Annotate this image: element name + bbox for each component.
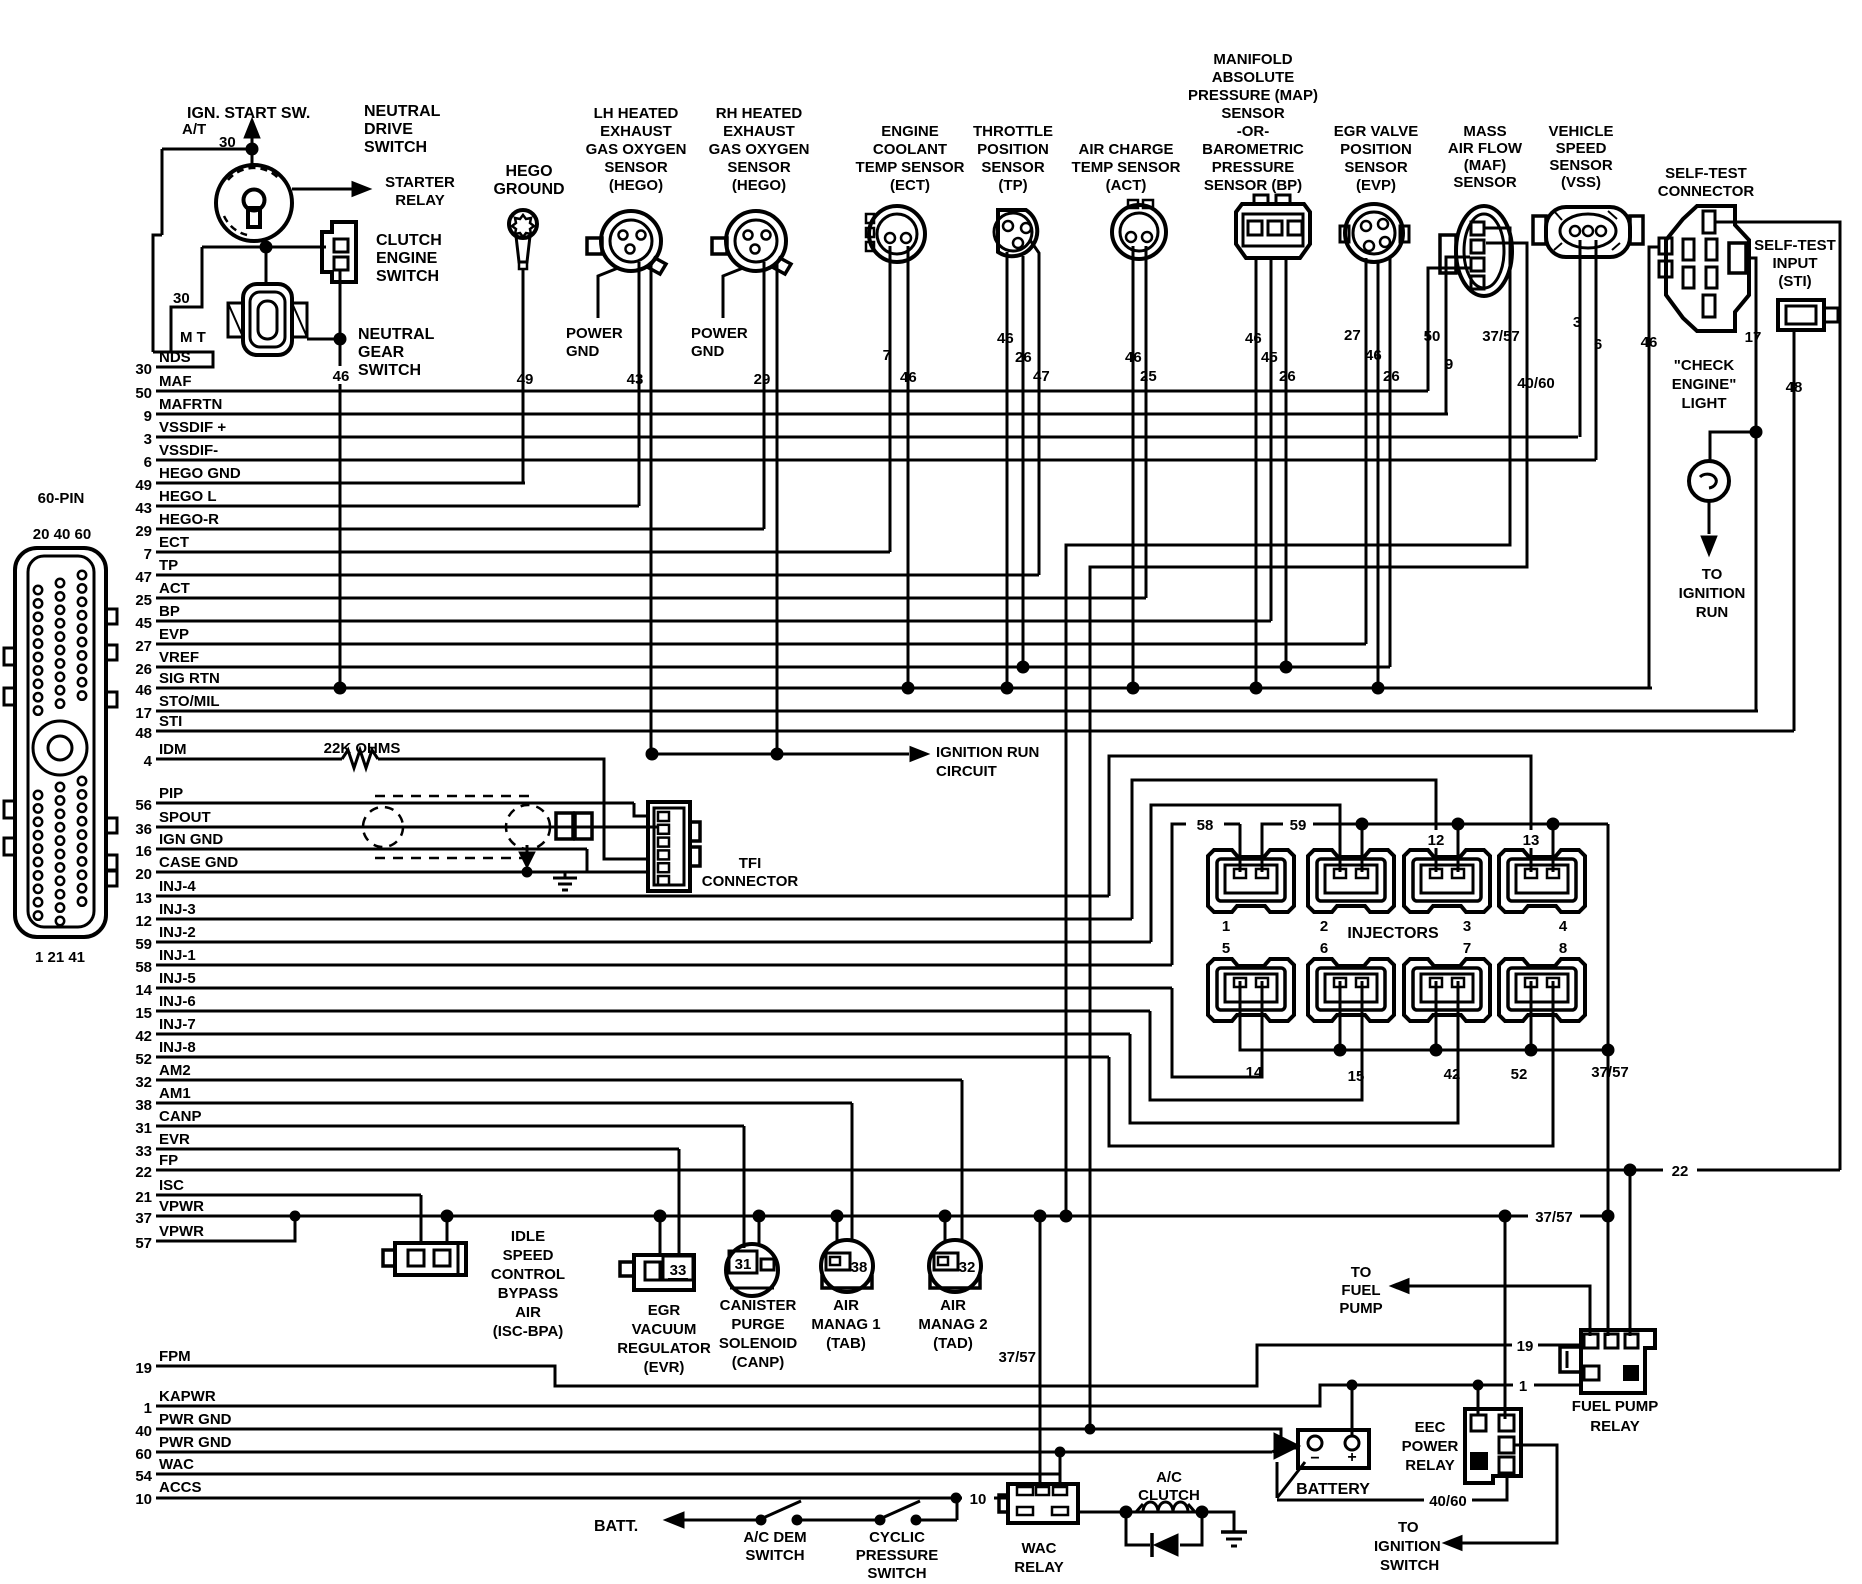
svg-text:58: 58	[135, 959, 152, 976]
wire to fuel pump	[1390, 1279, 1409, 1294]
svg-text:ECT: ECT	[159, 534, 189, 551]
wire TP 46	[1006, 252, 1009, 688]
wire PIP row	[156, 802, 634, 805]
svg-text:22K OHMS: 22K OHMS	[324, 740, 401, 757]
junction bottom bus inj8L	[1525, 1044, 1537, 1056]
svg-text:43: 43	[627, 371, 644, 388]
svg-text:CONNECTOR: CONNECTOR	[702, 873, 799, 890]
junction neutral gear drop	[260, 241, 272, 253]
60-pin connector left tabs	[4, 648, 15, 665]
svg-text:CLUTCH: CLUTCH	[376, 232, 442, 249]
wire 37/57 to EEC relay	[1504, 1216, 1507, 1419]
wire gear switch to node 46	[307, 338, 340, 341]
wire EVR signal 33	[678, 1149, 681, 1255]
wire 22 FP junction	[1624, 1164, 1636, 1176]
svg-text:59: 59	[1290, 817, 1307, 834]
svg-text:VACUUM: VACUUM	[632, 1321, 697, 1338]
wire KAPWR to EEC relay	[1477, 1385, 1480, 1415]
svg-text:45: 45	[1261, 349, 1278, 366]
VSS sensor connector	[1546, 207, 1630, 257]
wire CANP row	[156, 1125, 744, 1128]
svg-text:MANAG 2: MANAG 2	[918, 1316, 987, 1333]
svg-text:INJ-8: INJ-8	[159, 1039, 196, 1056]
EEC power relay body	[1465, 1409, 1521, 1483]
wire BP 45	[1270, 258, 1273, 621]
wire MAF 50	[1428, 268, 1470, 391]
TAB connector	[821, 1240, 873, 1292]
svg-text:CASE GND: CASE GND	[159, 854, 238, 871]
svg-text:4: 4	[1559, 918, 1568, 935]
svg-text:A/T: A/T	[182, 121, 206, 138]
svg-text:IGNITION RUN: IGNITION RUN	[936, 744, 1039, 761]
60-pin ECU connector outline	[15, 548, 106, 937]
svg-text:SENSOR: SENSOR	[1453, 174, 1517, 191]
wire VPWR 57	[156, 1216, 295, 1241]
svg-text:PIP: PIP	[159, 785, 183, 802]
TFI connector body	[648, 802, 690, 891]
diode loop	[1126, 1512, 1150, 1545]
svg-text:SWITCH: SWITCH	[1380, 1557, 1439, 1574]
wire ACT 25	[1145, 246, 1148, 598]
wire ignition run circuit	[651, 753, 909, 756]
shielded cable dashed bottom	[375, 857, 536, 860]
wire HEGO L row	[156, 505, 639, 508]
wire FP row (22)	[156, 1169, 1663, 1172]
svg-text:REGULATOR: REGULATOR	[617, 1340, 711, 1357]
svg-text:33: 33	[135, 1143, 152, 1160]
svg-text:M T: M T	[180, 329, 206, 346]
ISC-BPA connector	[395, 1243, 466, 1275]
svg-text:BAROMETRIC: BAROMETRIC	[1202, 141, 1304, 158]
HEGO ground ring terminal	[509, 210, 537, 238]
wire FPM (19)	[156, 1345, 1512, 1386]
svg-text:13: 13	[135, 890, 152, 907]
svg-text:30: 30	[135, 361, 152, 378]
svg-text:SELF-TEST: SELF-TEST	[1754, 237, 1836, 254]
svg-text:ENGINE: ENGINE	[881, 123, 939, 140]
svg-text:46: 46	[997, 330, 1014, 347]
svg-text:MASS: MASS	[1463, 123, 1506, 140]
ground symbol AC clutch	[1221, 1530, 1247, 1534]
ignition switch body	[216, 165, 292, 241]
junction bus join	[1602, 1044, 1614, 1056]
svg-text:A/C DEM: A/C DEM	[743, 1529, 806, 1546]
junction 17 / check engine	[1750, 426, 1762, 438]
svg-text:14: 14	[1246, 1064, 1263, 1081]
svg-text:PRESSURE (MAP): PRESSURE (MAP)	[1188, 87, 1318, 104]
svg-text:LH HEATED: LH HEATED	[594, 105, 679, 122]
svg-text:1: 1	[1222, 918, 1230, 935]
wire IGN GND drop to case gnd	[586, 849, 589, 872]
svg-text:MAF: MAF	[159, 373, 192, 390]
svg-text:46: 46	[1641, 334, 1658, 351]
wire clutch switch lower pin down	[339, 270, 342, 339]
svg-text:1: 1	[1519, 1378, 1527, 1395]
fuel pump relay body	[1581, 1330, 1655, 1393]
wire 30 M/T branch	[171, 247, 202, 352]
wire INJ-8 return (52)	[1109, 981, 1553, 1146]
svg-text:DRIVE: DRIVE	[364, 121, 413, 138]
svg-text:21: 21	[135, 1189, 152, 1206]
svg-text:SOLENOID: SOLENOID	[719, 1335, 798, 1352]
wire AM1 row	[156, 1102, 852, 1105]
wire INJ-7 row	[156, 1033, 1130, 1036]
svg-text:TEMP SENSOR: TEMP SENSOR	[1072, 159, 1181, 176]
junction bottom bus inj6L	[1334, 1044, 1346, 1056]
svg-text:12: 12	[135, 913, 152, 930]
junction shield drain / CASE GND	[522, 867, 532, 877]
junction ACCS / AC switches	[951, 1493, 961, 1503]
svg-text:56: 56	[135, 797, 152, 814]
svg-text:22: 22	[1672, 1163, 1689, 1180]
svg-text:(EVP): (EVP)	[1356, 177, 1396, 194]
svg-text:GND: GND	[691, 343, 725, 360]
svg-text:INPUT: INPUT	[1773, 255, 1818, 272]
wire ISC row	[156, 1194, 421, 1197]
junction node 46	[334, 333, 346, 345]
junction BP26/VREF	[1280, 661, 1292, 673]
svg-text:PRESSURE: PRESSURE	[856, 1547, 939, 1564]
junction AC clutch right	[1196, 1506, 1208, 1518]
svg-text:SWITCH: SWITCH	[358, 362, 421, 379]
svg-text:TFI: TFI	[739, 855, 762, 872]
svg-text:31: 31	[735, 1256, 752, 1273]
svg-text:INJECTORS: INJECTORS	[1347, 925, 1439, 942]
svg-text:CANISTER: CANISTER	[720, 1297, 797, 1314]
wire EVP 27	[1365, 258, 1368, 644]
svg-text:INJ-6: INJ-6	[159, 993, 196, 1010]
svg-text:POSITION: POSITION	[1340, 141, 1412, 158]
ECT sensor connector	[869, 206, 925, 262]
svg-text:VSSDIF +: VSSDIF +	[159, 419, 226, 436]
svg-text:3: 3	[144, 431, 152, 448]
svg-text:(HEGO): (HEGO)	[609, 177, 663, 194]
svg-text:FUEL: FUEL	[1341, 1282, 1380, 1299]
wire POWER GND stub	[598, 268, 618, 318]
svg-text:12: 12	[1428, 832, 1445, 849]
wire POWER GND stub	[723, 268, 743, 318]
60-pin connector pins bottom block	[34, 791, 42, 799]
svg-text:SPEED: SPEED	[503, 1247, 554, 1264]
svg-text:HEGO L: HEGO L	[159, 488, 217, 505]
wire INJ-3 feed (12)	[1132, 780, 1436, 919]
svg-text:SELF-TEST: SELF-TEST	[1665, 165, 1747, 182]
svg-text:32: 32	[135, 1074, 152, 1091]
wire IGN GND row	[156, 848, 587, 851]
STI input connector	[1778, 300, 1824, 330]
svg-text:SWITCH: SWITCH	[376, 268, 439, 285]
wire EEC relay to ignition switch	[1462, 1445, 1557, 1543]
svg-text:NEUTRAL: NEUTRAL	[364, 103, 441, 120]
wire MAFRTN row	[156, 413, 1448, 416]
wire INJ-2 row	[156, 941, 1151, 944]
wire VREF row	[156, 666, 1390, 669]
svg-text:(VSS): (VSS)	[1561, 174, 1601, 191]
wire injector VPWR bottom bus	[1240, 981, 1608, 1050]
svg-text:WAC: WAC	[159, 1456, 194, 1473]
svg-text:EEC: EEC	[1415, 1419, 1446, 1436]
junction PWR GND 60 / WAC relay gnd	[1055, 1447, 1065, 1457]
junction 46 / SIG RTN	[334, 682, 346, 694]
wire STO/MIL row	[156, 710, 1758, 713]
svg-text:MANAG 1: MANAG 1	[811, 1316, 880, 1333]
wire EVP 46	[1377, 260, 1380, 688]
CANP connector	[726, 1244, 778, 1296]
junction VPWR57/VPWR37	[290, 1211, 300, 1221]
svg-text:SPEED: SPEED	[1556, 140, 1607, 157]
wire MAF row	[156, 390, 1428, 393]
svg-text:SENSOR: SENSOR	[1344, 159, 1408, 176]
svg-text:19: 19	[135, 1360, 152, 1377]
junction bus inj2R	[1356, 818, 1368, 830]
svg-text:4: 4	[144, 753, 153, 770]
svg-text:SENSOR (BP): SENSOR (BP)	[1204, 177, 1302, 194]
wire self-test 46	[1649, 247, 1659, 688]
svg-text:(EVR): (EVR)	[644, 1359, 685, 1376]
wire INJ-4 row	[156, 895, 1109, 898]
ground symbol TFI shield	[564, 872, 567, 878]
junction BP46/SIGRTN	[1250, 682, 1262, 694]
resistor R1 22K OHMS	[342, 750, 378, 768]
svg-text:20 40 60: 20 40 60	[33, 526, 91, 543]
wire bus corner down	[1607, 824, 1610, 1050]
SPOUT inline connector	[556, 813, 573, 839]
svg-text:33: 33	[670, 1262, 687, 1279]
svg-text:AIR CHARGE: AIR CHARGE	[1078, 141, 1173, 158]
svg-text:ISC: ISC	[159, 1177, 184, 1194]
svg-text:CIRCUIT: CIRCUIT	[936, 763, 997, 780]
wire bus to fuel pump relay	[1607, 1216, 1610, 1336]
svg-text:37: 37	[135, 1210, 152, 1227]
svg-text:+: +	[1347, 1449, 1356, 1466]
svg-text:TO: TO	[1398, 1519, 1419, 1536]
wire STI row	[156, 730, 1794, 733]
svg-text:POWER: POWER	[1402, 1438, 1459, 1455]
60-pin connector right tabs	[106, 609, 117, 624]
EVP sensor connector	[1345, 204, 1403, 262]
svg-text:1: 1	[144, 1400, 152, 1417]
svg-text:-OR-: -OR-	[1237, 123, 1270, 140]
diode D1	[1154, 1534, 1178, 1556]
60-pin connector pins top block	[34, 586, 42, 594]
svg-text:TP: TP	[159, 557, 178, 574]
svg-text:42: 42	[1444, 1066, 1461, 1083]
60-pin connector center boss	[33, 721, 87, 775]
wire WAC relay to AC clutch	[1078, 1511, 1126, 1514]
svg-text:BYPASS: BYPASS	[498, 1285, 559, 1302]
WAC relay pins	[1017, 1487, 1033, 1495]
wire MAF 40/60 PWR GND	[1090, 243, 1527, 1429]
junction VPWR TAD	[939, 1210, 951, 1222]
svg-text:26: 26	[1279, 368, 1296, 385]
svg-text:CONTROL: CONTROL	[491, 1266, 565, 1283]
svg-text:MANIFOLD: MANIFOLD	[1213, 51, 1292, 68]
junction VPWR WAC relay	[1034, 1210, 1046, 1222]
wire self-test 17 STO/MIL	[1746, 258, 1756, 711]
svg-text:ACCS: ACCS	[159, 1479, 202, 1496]
svg-text:RELAY: RELAY	[1014, 1559, 1063, 1576]
svg-text:3: 3	[1573, 314, 1581, 331]
wire NDS	[153, 352, 213, 367]
svg-text:50: 50	[1424, 328, 1441, 345]
svg-text:AIR: AIR	[940, 1297, 966, 1314]
svg-text:60-PIN: 60-PIN	[38, 490, 85, 507]
svg-text:42: 42	[135, 1028, 152, 1045]
wire IDM to TFI pin	[378, 759, 648, 859]
svg-text:59: 59	[135, 936, 152, 953]
svg-text:9: 9	[144, 408, 152, 425]
self-test connector right bump	[1729, 243, 1746, 273]
wire 46 vertical to SIG RTN	[339, 339, 342, 366]
wire MAF 37/57 VPWR	[1066, 228, 1510, 1216]
wire VPWR bus down to 37/57	[1607, 1050, 1610, 1216]
svg-text:FUEL PUMP: FUEL PUMP	[1572, 1398, 1658, 1415]
svg-text:57: 57	[135, 1235, 152, 1252]
svg-text:AIR: AIR	[833, 1297, 859, 1314]
junction VPWR TAB	[831, 1210, 843, 1222]
wire HEGO signal	[763, 262, 766, 529]
svg-text:48: 48	[1786, 379, 1803, 396]
wire TP row	[156, 574, 1039, 577]
svg-text:26: 26	[1015, 349, 1032, 366]
junction EVP46/SIGRTN	[1372, 682, 1384, 694]
svg-text:INJ-2: INJ-2	[159, 924, 196, 941]
wire HEGO heater	[776, 262, 779, 754]
svg-text:30: 30	[173, 290, 190, 307]
junction RH heater / ignition run	[771, 748, 783, 760]
battery flag lines	[1277, 1462, 1305, 1498]
svg-text:49: 49	[517, 371, 534, 388]
svg-text:THROTTLE: THROTTLE	[973, 123, 1053, 140]
injector 8 connector	[1499, 959, 1585, 1021]
svg-text:SWITCH: SWITCH	[364, 139, 427, 156]
junction bottom bus inj7L	[1430, 1044, 1442, 1056]
svg-text:WAC: WAC	[1022, 1540, 1057, 1557]
svg-text:IGN. START SW.: IGN. START SW.	[187, 105, 310, 122]
svg-text:IGNITION: IGNITION	[1374, 1538, 1441, 1555]
svg-text:EGR: EGR	[648, 1302, 681, 1319]
svg-text:BATTERY: BATTERY	[1296, 1481, 1370, 1498]
svg-text:(HEGO): (HEGO)	[732, 177, 786, 194]
svg-text:HEGO-R: HEGO-R	[159, 511, 219, 528]
svg-text:1 21 41: 1 21 41	[35, 949, 85, 966]
svg-text:GROUND: GROUND	[493, 181, 564, 198]
svg-text:16: 16	[135, 843, 152, 860]
svg-text:RELAY: RELAY	[1405, 1457, 1454, 1474]
wire AM2 row	[156, 1079, 962, 1082]
svg-text:(ECT): (ECT)	[890, 177, 930, 194]
svg-text:STO/MIL: STO/MIL	[159, 693, 220, 710]
AC clutch coil	[1126, 1511, 1202, 1514]
svg-text:CANP: CANP	[159, 1108, 202, 1125]
svg-text:BATT.: BATT.	[594, 1518, 638, 1535]
svg-text:FPM: FPM	[159, 1348, 191, 1365]
ignition start switch arrow up	[244, 118, 260, 138]
svg-text:AIR FLOW: AIR FLOW	[1448, 140, 1523, 157]
svg-text:SPOUT: SPOUT	[159, 809, 211, 826]
svg-text:49: 49	[135, 477, 152, 494]
svg-text:RUN: RUN	[1696, 604, 1729, 621]
wire INJ-2 feed (59)	[1151, 805, 1340, 942]
svg-text:−: −	[1310, 1450, 1319, 1467]
wire PWR GND 40	[156, 1429, 1298, 1448]
svg-text:8: 8	[1559, 940, 1567, 957]
svg-text:(ISC-BPA): (ISC-BPA)	[493, 1323, 564, 1340]
svg-text:VREF: VREF	[159, 649, 199, 666]
wire BP 46	[1255, 258, 1258, 688]
svg-text:25: 25	[135, 592, 152, 609]
svg-text:GAS OXYGEN: GAS OXYGEN	[709, 141, 810, 158]
svg-text:GND: GND	[566, 343, 600, 360]
wire BP 26	[1285, 258, 1288, 667]
svg-text:VEHICLE: VEHICLE	[1548, 123, 1613, 140]
wire CANP signal 31	[743, 1126, 746, 1248]
svg-text:13: 13	[1523, 832, 1540, 849]
svg-text:6: 6	[1594, 336, 1602, 353]
wire starter relay	[292, 188, 352, 191]
svg-text:IDM: IDM	[159, 741, 187, 758]
svg-text:EVP: EVP	[159, 626, 189, 643]
wire ECT row	[156, 551, 890, 554]
svg-text:46: 46	[1365, 347, 1382, 364]
svg-text:27: 27	[135, 638, 152, 655]
svg-text:PUMP: PUMP	[1339, 1300, 1382, 1317]
svg-text:KAPWR: KAPWR	[159, 1388, 216, 1405]
neutral gear switch left ear	[228, 303, 243, 337]
wire AM1 signal 38	[851, 1103, 854, 1240]
svg-text:10: 10	[970, 1491, 987, 1508]
wire 37/57 to WAC relay	[1039, 1216, 1042, 1486]
wire EEC relay 40/60	[1472, 1473, 1507, 1500]
svg-text:CYCLIC: CYCLIC	[869, 1529, 925, 1546]
svg-text:54: 54	[135, 1468, 152, 1485]
svg-text:ENGINE": ENGINE"	[1672, 376, 1737, 393]
EVR connector	[634, 1255, 694, 1290]
wire VSSDIF + row	[156, 436, 1578, 439]
svg-text:38: 38	[135, 1097, 152, 1114]
svg-text:17: 17	[1745, 329, 1762, 346]
svg-text:6: 6	[1320, 940, 1328, 957]
wire HEGO signal	[638, 262, 641, 506]
svg-text:(CANP): (CANP)	[732, 1354, 785, 1371]
svg-text:SENSOR: SENSOR	[604, 159, 668, 176]
svg-text:INJ-4: INJ-4	[159, 878, 196, 895]
wire 30 A/T to switch	[171, 148, 252, 151]
svg-text:STI: STI	[159, 713, 182, 730]
svg-text:POWER: POWER	[691, 325, 748, 342]
TAD connector	[929, 1240, 981, 1292]
wire PIP to TFI	[634, 803, 648, 816]
wire WAC row	[156, 1473, 1060, 1476]
svg-text:STARTER: STARTER	[385, 174, 455, 191]
svg-text:22: 22	[135, 1164, 152, 1181]
svg-text:MAFRTN: MAFRTN	[159, 396, 222, 413]
svg-text:GAS OXYGEN: GAS OXYGEN	[586, 141, 687, 158]
wire BP row	[156, 620, 1271, 623]
wire TP 47	[1030, 240, 1039, 575]
svg-text:PURGE: PURGE	[731, 1316, 784, 1333]
svg-text:32: 32	[959, 1259, 976, 1276]
svg-text:VSSDIF-: VSSDIF-	[159, 442, 218, 459]
wire EVP row	[156, 643, 1366, 646]
battery body	[1298, 1430, 1369, 1468]
wire EVR row	[156, 1148, 679, 1151]
svg-text:INJ-7: INJ-7	[159, 1016, 196, 1033]
svg-text:37/57: 37/57	[998, 1349, 1036, 1366]
HEGO sensor connector	[601, 211, 661, 271]
svg-text:9: 9	[1445, 356, 1453, 373]
MAF connector left bracket	[1440, 235, 1456, 273]
